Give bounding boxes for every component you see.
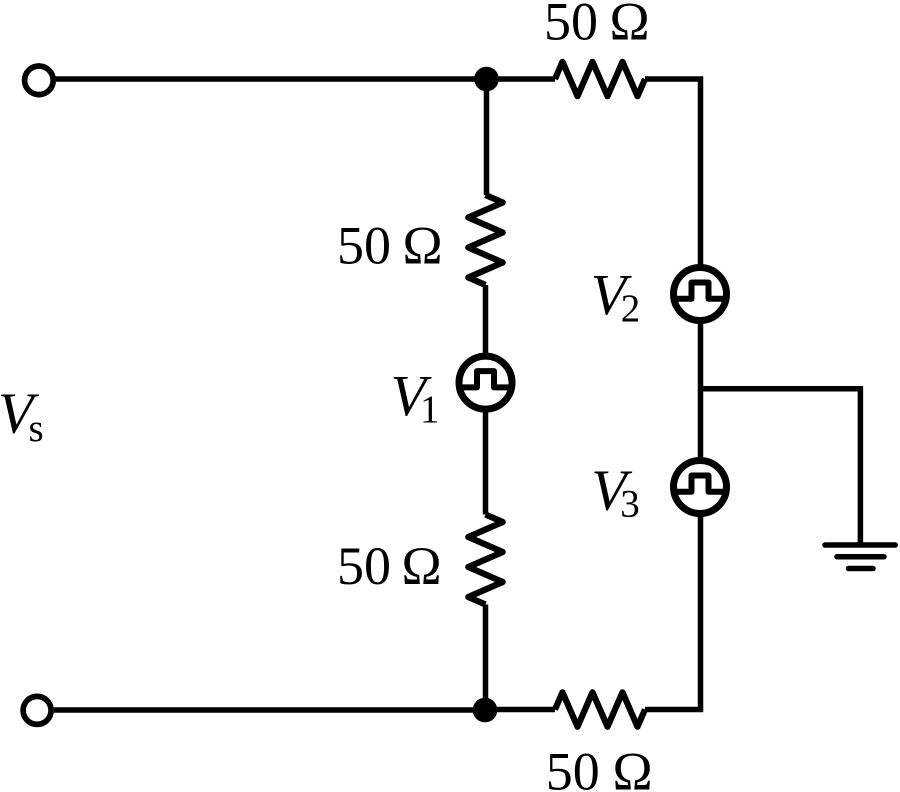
ground bar 2 (837, 554, 884, 560)
source V2 pulse symbol (676, 283, 724, 299)
source V1 pulse symbol (462, 371, 510, 387)
terminal bottom-left (23, 696, 51, 724)
resistor R4 50ohm bottom (555, 692, 645, 726)
svg-text:Ω: Ω (613, 742, 653, 792)
svg-text:1: 1 (420, 388, 440, 431)
node bottom junction (473, 698, 498, 723)
wire R4 to right corner up to V3 (645, 517, 701, 710)
wire junction to R4 (485, 707, 555, 713)
terminal top-left (25, 66, 54, 95)
svg-text:s: s (29, 407, 44, 450)
wire junction to R1 (487, 76, 556, 82)
svg-text:Ω: Ω (402, 536, 442, 596)
svg-text:50: 50 (546, 742, 600, 792)
resistor R1 50ohm top (555, 62, 645, 96)
resistor R3 50ohm middle lower (468, 515, 502, 605)
source V2 circle (674, 268, 727, 321)
source V1 circle (459, 356, 512, 409)
wire R2 to V1 (483, 285, 489, 354)
source V3 pulse symbol (676, 476, 724, 492)
wire middle branch junction to R2 (484, 79, 490, 195)
wire bottom from terminal to junction (54, 707, 485, 713)
wire R1 to right corner and down to V2 (645, 79, 701, 265)
svg-text:50: 50 (337, 215, 391, 275)
svg-text:Ω: Ω (403, 215, 443, 275)
svg-text:50: 50 (544, 0, 598, 52)
ground bar 1 (825, 542, 895, 548)
wire V1 to R3 (483, 412, 489, 515)
resistor R2 50ohm middle upper (468, 195, 502, 285)
source V3 circle (674, 461, 727, 514)
ground bar 3 (849, 566, 874, 572)
svg-text:2: 2 (621, 287, 641, 330)
svg-text:50: 50 (337, 536, 391, 596)
node top junction (474, 67, 499, 92)
wire top from terminal to junction (55, 76, 486, 82)
wire V3 to V2 (698, 324, 704, 458)
svg-text:3: 3 (620, 483, 640, 526)
svg-text:Ω: Ω (610, 0, 650, 52)
wire R3 to bottom junction (483, 605, 489, 711)
wire tap to ground (701, 389, 861, 545)
